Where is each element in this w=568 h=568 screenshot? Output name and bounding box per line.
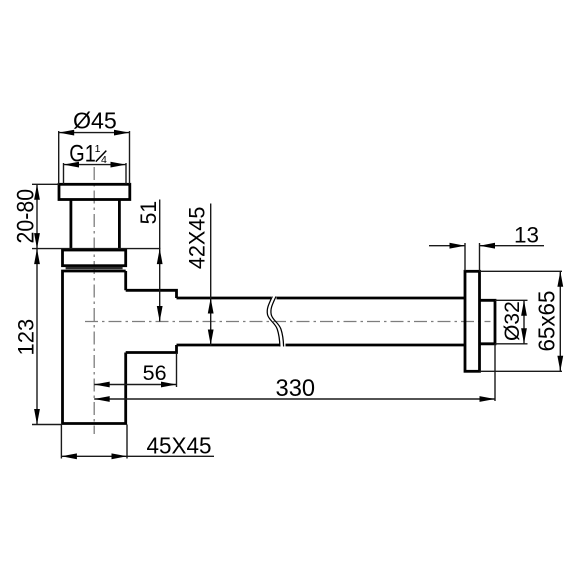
svg-text:45X45: 45X45 [147, 432, 212, 458]
svg-text:65x65: 65x65 [534, 291, 560, 352]
svg-text:330: 330 [276, 376, 316, 402]
svg-text:123: 123 [14, 319, 39, 356]
svg-text:G1: G1 [69, 141, 96, 168]
svg-text:13: 13 [514, 223, 539, 248]
svg-text:42X45: 42X45 [185, 207, 210, 270]
svg-text:56: 56 [143, 361, 167, 385]
svg-text:51: 51 [136, 201, 161, 225]
svg-text:1: 1 [95, 143, 101, 155]
svg-text:Ø32: Ø32 [501, 301, 524, 341]
svg-text:Ø45: Ø45 [73, 108, 117, 134]
svg-text:20-80: 20-80 [13, 189, 39, 244]
